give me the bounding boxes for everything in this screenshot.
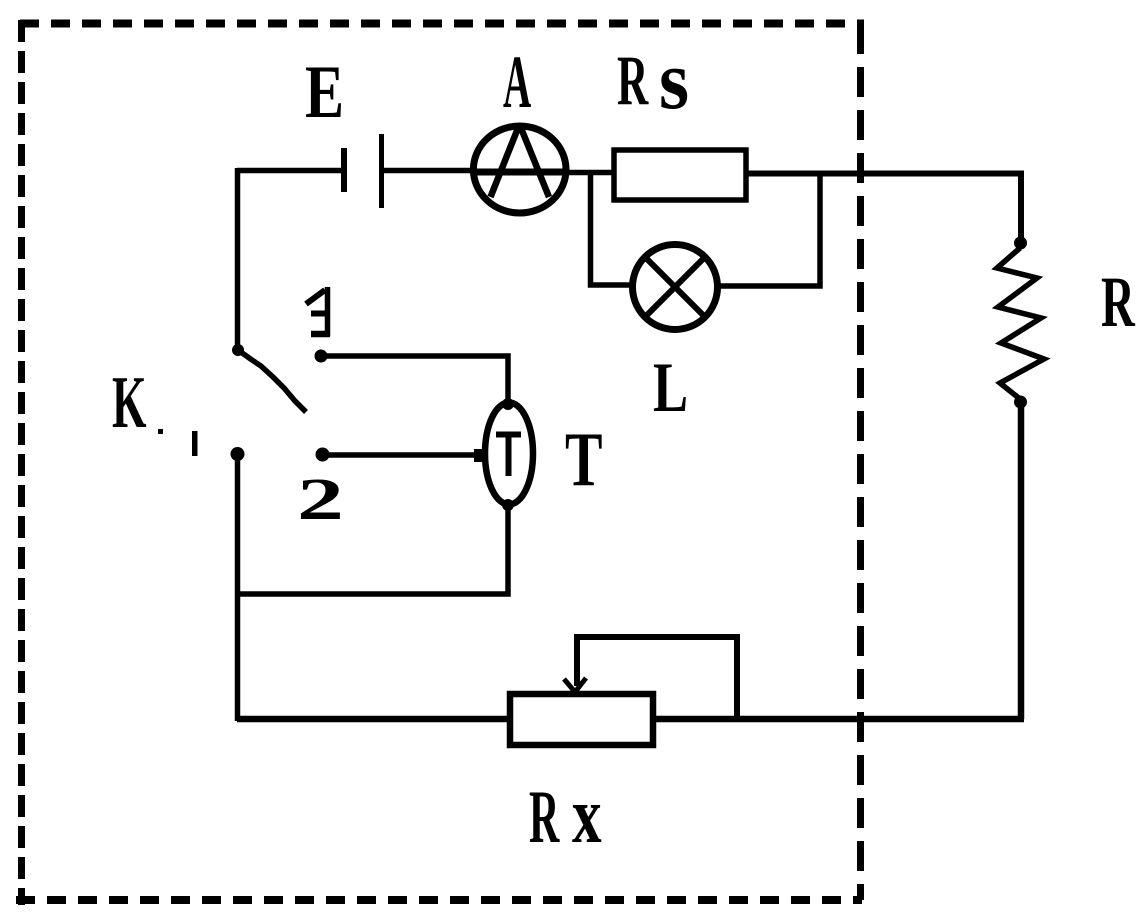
svg-text:R: R: [1101, 263, 1136, 342]
node: R top junction: [1014, 237, 1027, 250]
switch K blade: [238, 350, 306, 412]
node: T top junction: [502, 398, 514, 410]
resistor Rs: [614, 150, 746, 200]
svg-text:2: 2: [297, 466, 344, 532]
label 3 (contact 3, mirrored glyph): [306, 287, 330, 336]
wire: battery negative lead left: [237, 168, 341, 174]
rheostat Rx wiper arrowhead: [564, 678, 586, 692]
component T (ellipse): [485, 403, 533, 505]
label 1 (contact 1): [192, 431, 198, 456]
wire: battery to ammeter: [384, 168, 476, 174]
wire: T bottom to left rail: [238, 505, 508, 594]
speck after K: [158, 429, 163, 434]
svg-text:A: A: [503, 41, 531, 124]
label Rs: [617, 34, 689, 127]
resistor R (zigzag): [997, 248, 1044, 399]
label Rx: [529, 772, 602, 861]
wire: contact 1 down left rail: [235, 454, 241, 721]
wire: lamp branch right (lamp to top wire): [717, 172, 820, 286]
wire: down to switch pivot: [235, 168, 241, 350]
svg-text:K: K: [112, 363, 147, 444]
node: R bottom junction: [1014, 396, 1027, 409]
wire: lamp branch left (junction to lamp): [591, 173, 635, 285]
wire: contact 2 to T left side: [322, 452, 482, 458]
wire: contact 3 to T top: [321, 356, 508, 403]
svg-text:E: E: [305, 50, 344, 134]
node: T left terminal blob: [474, 449, 488, 462]
node: contact 2: [316, 448, 330, 462]
wire: Rx to bottom right corner: [653, 716, 1024, 723]
node: contact 3: [315, 350, 328, 363]
node: T bottom junction: [502, 499, 514, 511]
svg-text:x: x: [572, 772, 602, 861]
rheostat Rx (body): [510, 694, 653, 745]
svg-text:L: L: [653, 347, 688, 427]
svg-text:s: s: [659, 34, 689, 127]
switch K pivot node: [232, 344, 244, 356]
wire: Rs to top-right corner down to R: [746, 174, 1021, 244]
rheostat Rx wiper arm: [577, 637, 737, 719]
wire: R down to bottom right corner: [1018, 402, 1025, 719]
dashed enclosure box: [16, 20, 864, 905]
svg-text:R: R: [529, 777, 560, 860]
ammeter A (meter U1): [473, 126, 566, 213]
svg-text:R: R: [617, 41, 649, 119]
svg-text:T: T: [565, 416, 602, 502]
lamp L: [633, 245, 718, 330]
wire: bottom left to Rx: [237, 716, 512, 723]
battery E: [344, 134, 382, 208]
wire: ammeter to Rs: [566, 170, 616, 176]
node: contact 1: [231, 447, 245, 461]
